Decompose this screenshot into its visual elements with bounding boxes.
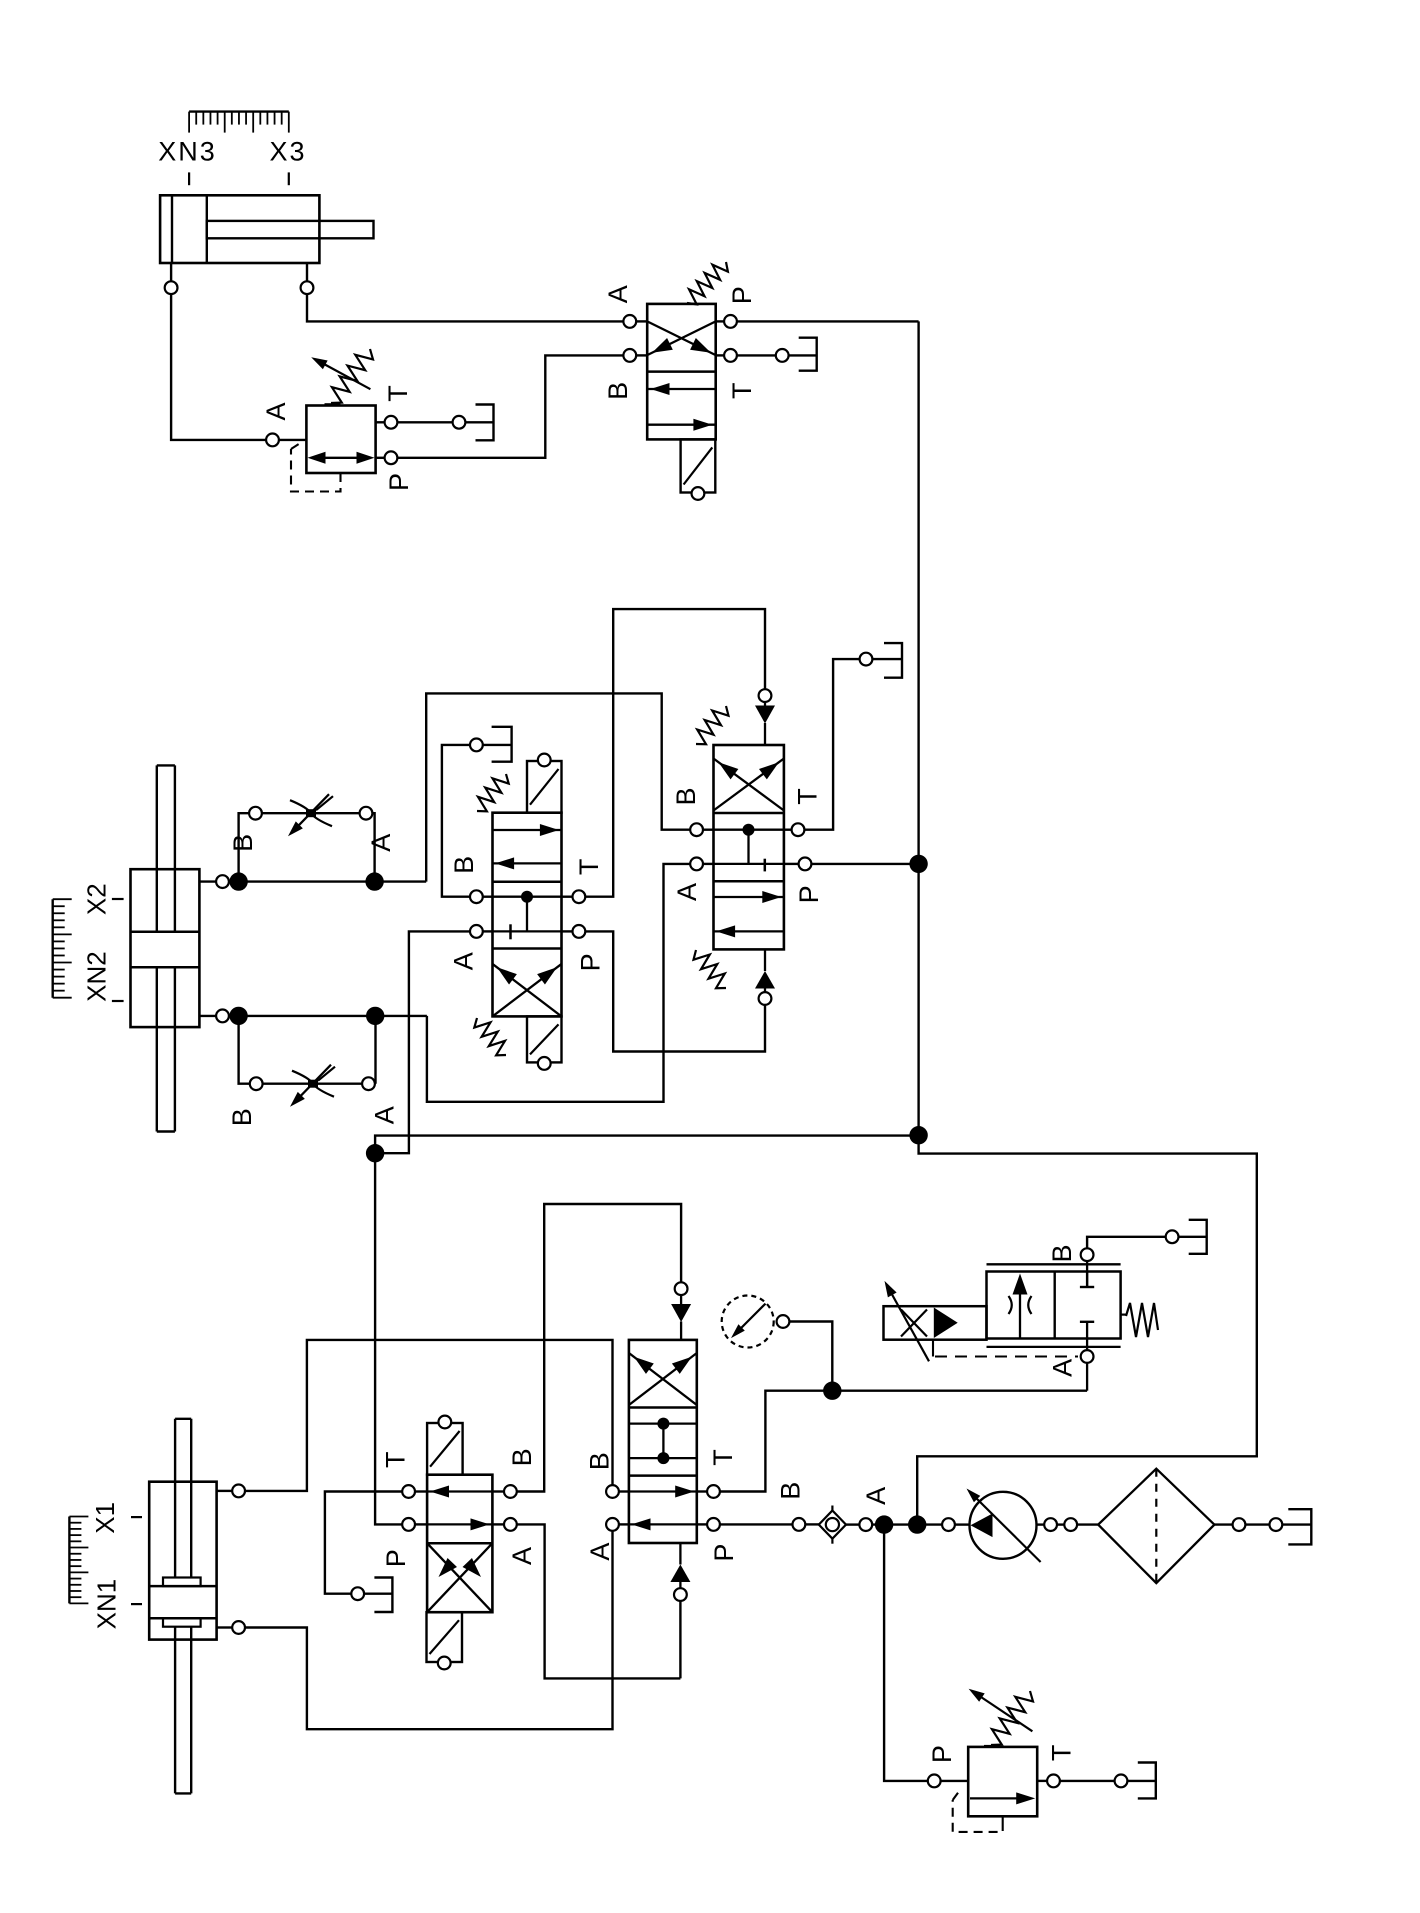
valve V1 crossed arrows: [647, 321, 716, 355]
valve V2 port P: [573, 925, 586, 938]
svg-text:B: B: [227, 1108, 257, 1126]
tank at FCV port B: [1189, 1220, 1207, 1254]
valve V4 port T: [402, 1485, 415, 1498]
tank at valve V4 port T: [374, 1578, 392, 1613]
svg-text:B: B: [228, 834, 258, 852]
valve V4 body (4/2): [427, 1475, 492, 1613]
svg-text:XN3: XN3: [158, 137, 217, 167]
flow control FCV throttle cell: [1009, 1274, 1032, 1339]
ruler pointer marks C1: [131, 1517, 142, 1604]
wire V3 T to tank: [784, 653, 902, 830]
valve VA adjustment arrow: [311, 357, 370, 389]
svg-text:B: B: [449, 856, 479, 874]
valve V2 solenoid top: [527, 761, 562, 813]
relief valve RV internal arrow: [970, 1792, 1035, 1804]
valve V5 port P: [707, 1518, 720, 1531]
svg-text:B: B: [507, 1448, 537, 1466]
junction FC1 left: [229, 872, 247, 890]
position ruler for cylinder C1: [69, 1517, 88, 1604]
valve V2 port B: [470, 890, 483, 903]
svg-text:A: A: [603, 285, 633, 303]
svg-text:B: B: [671, 787, 701, 805]
valve V3 port T: [792, 823, 805, 836]
valve VA port T: [376, 416, 494, 429]
wire V3 B into body: [704, 829, 714, 831]
flow control FC1 bypass loop: [239, 807, 375, 882]
relief valve RV port T: [1037, 1775, 1156, 1788]
svg-text:T: T: [708, 1449, 738, 1466]
wire V3 P to main pressure line: [784, 863, 919, 865]
flow control FCV dashed pilot: [935, 1355, 1078, 1357]
junction FC2 left: [229, 1007, 247, 1025]
wire V5 A into body: [620, 1523, 629, 1525]
svg-text:T: T: [383, 385, 413, 402]
counterbalance valve VA body: [306, 406, 375, 474]
wire V5 P to pump line: [697, 1523, 792, 1525]
valve V1 port P: [724, 315, 737, 328]
svg-text:A: A: [369, 1106, 399, 1124]
check valve CV1: [793, 1506, 873, 1544]
wire C2 bottom port to V3 port A: [427, 864, 690, 1102]
wire C1 top port to V5 port B: [246, 1340, 613, 1491]
junction FC1 right: [365, 872, 383, 890]
junction gauge line: [823, 1382, 841, 1400]
wire V4 P into body: [416, 1523, 428, 1525]
svg-text:B: B: [775, 1482, 805, 1500]
wire VA A into body: [280, 439, 307, 441]
valve VA port P: [376, 451, 398, 464]
svg-text:A: A: [366, 834, 396, 852]
valve V2 spring top: [477, 774, 509, 811]
svg-text:P: P: [709, 1544, 739, 1562]
svg-text:A: A: [585, 1543, 615, 1561]
tank at relief valve T: [1138, 1763, 1156, 1799]
wire V5 bottom pilot down: [679, 1602, 681, 1679]
relief valve RV port P: [928, 1775, 968, 1788]
junction main line / lower distribution: [909, 1126, 927, 1144]
relief valve RV dashed pilot: [953, 1790, 1003, 1832]
wire pump suction: [942, 1518, 969, 1531]
valve V1 body (4/2): [647, 304, 716, 440]
valve V5 bottom pilot triangle: [670, 1543, 690, 1601]
port stub C3 left: [165, 263, 178, 294]
svg-text:P: P: [575, 953, 605, 971]
svg-text:T: T: [381, 1451, 411, 1468]
wire FCV B to tank: [1087, 1230, 1207, 1247]
wire main line jog to pump branch: [917, 1135, 1257, 1518]
valve V3 top pilot triangle: [755, 689, 775, 745]
svg-text:B: B: [1047, 1244, 1077, 1262]
valve V3 crossed arrows top square: [714, 759, 784, 811]
svg-text:A: A: [1048, 1359, 1078, 1377]
tank at valve V1 port T: [799, 338, 817, 371]
wire C2 top port row: [239, 880, 427, 882]
svg-text:P: P: [384, 473, 414, 491]
valve V4 port A: [504, 1518, 517, 1531]
svg-text:T: T: [727, 383, 757, 400]
valve V1 port A: [623, 315, 636, 328]
valve V4 crossed arrows: [427, 1543, 492, 1612]
valve VA pilot dashed line: [291, 442, 341, 492]
valve V5 port B: [606, 1485, 619, 1498]
wire V2 A to node: [384, 931, 493, 1153]
position ruler for cylinder C3: [189, 112, 289, 133]
valve VA port A: [266, 434, 279, 447]
valve V4 solenoid bottom: [427, 1612, 463, 1662]
junction pump line / main system branch: [908, 1515, 926, 1533]
valve V1 port T: [724, 349, 737, 362]
relief valve RV body: [968, 1747, 1037, 1816]
svg-text:X3: X3: [269, 137, 306, 167]
wire C3 left port to valve VA port A: [171, 295, 265, 440]
valve V5 crossed arrows top square: [629, 1353, 697, 1405]
svg-text:B: B: [585, 1452, 615, 1470]
junction node lower-left distribution: [366, 1144, 384, 1162]
wire filter to tank: [1214, 1518, 1311, 1531]
valve V5 body (4/3): [629, 1340, 697, 1543]
valve V4 port B: [504, 1485, 517, 1498]
wire V1 A into body: [637, 320, 647, 322]
throttle valve FC1 symbol: [288, 794, 333, 836]
wire V3 A into body: [704, 863, 714, 865]
wire V4 A to V5 bottom pilot: [492, 1524, 680, 1678]
wire V5 B into body: [620, 1490, 629, 1492]
wire node down to V4 port P: [375, 1153, 402, 1524]
wire V5 T to combo valve A: [697, 1391, 1087, 1492]
wire V1 P to main pressure line: [716, 320, 919, 322]
svg-text:P: P: [794, 885, 824, 903]
pressure gauge: [722, 1296, 790, 1348]
pump P1 (variable displacement): [967, 1489, 1041, 1563]
valve V3 centre position symbols: [714, 824, 784, 872]
valve V3 port A: [690, 858, 703, 871]
svg-text:XN1: XN1: [92, 1579, 122, 1630]
tank at valve VA port T: [476, 405, 494, 441]
svg-text:B: B: [603, 382, 633, 400]
junction pump line / relief valve branch: [873, 1515, 942, 1533]
valve V3 bottom pilot triangle: [755, 949, 775, 1004]
svg-text:A: A: [449, 952, 479, 970]
valve V1 port B: [623, 349, 636, 362]
valve V5 top pilot triangle: [671, 1282, 691, 1340]
position ruler for cylinder C2: [53, 899, 72, 998]
valve V4 port P: [402, 1518, 415, 1531]
cylinder C1 (double rod): [149, 1419, 216, 1794]
port stub C3 right: [301, 263, 314, 294]
svg-text:T: T: [1047, 1745, 1077, 1762]
svg-text:XN2: XN2: [82, 951, 112, 1002]
cylinder C2 (double rod): [131, 765, 200, 1131]
valve V4 solenoid top: [427, 1423, 463, 1475]
relief valve RV adjustment arrow: [969, 1689, 1033, 1732]
flow control FCV spring: [1121, 1303, 1158, 1337]
wire gauge to V5 T line: [790, 1322, 832, 1391]
valve V3 port B: [690, 823, 703, 836]
wire node to main line: [375, 1136, 919, 1154]
flow control valve FCV housing: [987, 1264, 1121, 1347]
wire V2 B to tank: [442, 739, 512, 897]
wire V4 B to V5 top pilot: [492, 1204, 681, 1492]
throttle valve FC2 symbol: [290, 1065, 335, 1107]
svg-text:P: P: [381, 1549, 411, 1567]
valve V2 port T: [573, 890, 586, 903]
ruler pointer marks C3: [189, 172, 289, 185]
valve V3 spring bottom: [694, 950, 727, 988]
flow control FCV adjustment arrow: [885, 1281, 930, 1361]
valve V4 parallel arrows: [427, 1486, 492, 1531]
wire V1 T to tank: [716, 349, 817, 362]
wire V2 T to V3 top pilot: [562, 609, 766, 897]
valve V2 port A: [470, 925, 483, 938]
valve V2 centre position symbols: [493, 891, 562, 940]
valve VA internal double arrow: [308, 452, 375, 464]
valve V2 parallel arrows top square: [493, 824, 562, 869]
wire V2 P to V3 bottom pilot: [562, 931, 766, 1051]
junction main line / V3 P: [909, 855, 927, 873]
junction FC2 right: [366, 1007, 384, 1025]
port stub C1 top: [217, 1485, 245, 1498]
valve V1 parallel arrows: [647, 383, 716, 431]
valve V2 body (4/3): [493, 813, 562, 1017]
valve V5 centre position symbols: [629, 1418, 697, 1465]
valve V2 spring bottom: [474, 1018, 506, 1055]
valve V3 parallel arrows bottom square: [714, 891, 784, 937]
wire VA P to V1 port B: [398, 355, 623, 457]
cylinder C3 (double-acting): [160, 195, 373, 263]
wire V4 T to tank: [325, 1492, 427, 1601]
wire C2 top port to V3 port B: [426, 693, 689, 881]
svg-text:X2: X2: [82, 883, 112, 915]
tank at valve V3 port T: [884, 643, 902, 678]
wire pump to filter: [1037, 1518, 1099, 1531]
valve VA spring: [325, 349, 374, 404]
svg-text:X1: X1: [90, 1502, 120, 1534]
wire V1 B into body: [637, 354, 647, 356]
svg-text:A: A: [861, 1487, 891, 1505]
valve V3 port P: [799, 858, 812, 871]
suction tank: [1288, 1509, 1311, 1544]
valve V5 parallel arrows bottom square: [629, 1486, 697, 1531]
main pressure line vertical: [917, 321, 919, 1135]
valve V1 solenoid: [681, 439, 716, 492]
valve V5 port T: [707, 1485, 720, 1498]
svg-text:P: P: [927, 1745, 957, 1763]
wire C1 bottom port to V5 port A: [246, 1531, 613, 1729]
svg-text:A: A: [507, 1547, 537, 1565]
flow control FCV compensator block: [884, 1306, 987, 1340]
flow control FC2 bypass loop: [239, 1016, 376, 1090]
svg-text:A: A: [261, 402, 291, 420]
flow control FCV port A: [1081, 1339, 1094, 1391]
valve V2 crossed arrows bottom square: [493, 964, 562, 1017]
port stub C2 top: [199, 875, 231, 888]
valve V2 solenoid bottom: [527, 1016, 562, 1062]
valve V3 body (4/3): [714, 745, 784, 949]
relief valve RV spring: [984, 1691, 1033, 1746]
svg-text:T: T: [574, 859, 604, 876]
ruler pointer marks C2: [112, 899, 124, 1001]
wire C2 bottom port row: [239, 1015, 427, 1017]
valve V1 spring: [687, 262, 728, 304]
wire C3 right port to valve V1 port A: [307, 295, 623, 322]
port stub C2 bottom: [199, 1010, 231, 1023]
svg-text:T: T: [793, 788, 823, 805]
valve V5 port A: [606, 1518, 619, 1531]
port stub C1 bottom: [217, 1621, 245, 1634]
flow control FCV port B: [1081, 1248, 1094, 1287]
flow control FCV blocked cell: [1080, 1272, 1094, 1339]
filter F1: [1098, 1469, 1214, 1583]
tank at valve V2 port B: [492, 727, 512, 762]
wire relief valve P branch: [884, 1525, 927, 1781]
valve V3 spring top: [696, 706, 729, 744]
svg-text:A: A: [672, 883, 702, 901]
svg-text:P: P: [727, 286, 757, 304]
